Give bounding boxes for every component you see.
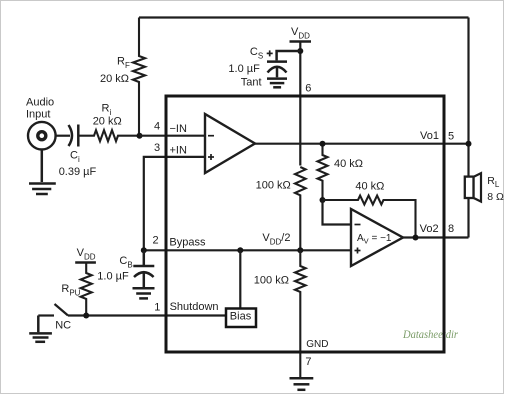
svg-text:+IN: +IN [170,145,187,157]
resistor 100k upper [295,167,306,250]
svg-text:Vo2: Vo2 [420,223,439,235]
svg-text:Datasheetdir: Datasheetdir [402,327,458,341]
svg-text:AV = −1: AV = −1 [357,233,392,246]
IC box [166,96,444,352]
node bias tap [237,247,243,253]
wire +IN pin 3 [144,157,205,250]
svg-text:Bias: Bias [230,310,252,322]
node shutdown/pull-up junction [83,313,89,319]
capacitor CB [133,250,154,287]
U1A inverting input mark [208,135,214,137]
wire Vo2 [403,236,469,238]
svg-text:−IN: −IN [170,123,187,135]
ground (NC) [29,316,52,342]
svg-text:1.0 µF: 1.0 µF [97,270,129,282]
svg-text:Shutdown: Shutdown [170,301,219,313]
svg-text:Input: Input [26,108,50,120]
speaker RL [465,173,481,201]
ground (audio input) [29,149,56,194]
svg-text:100 kΩ: 100 kΩ [254,275,289,287]
svg-text:5: 5 [448,131,454,143]
svg-text:20 kΩ: 20 kΩ [100,73,129,85]
svg-text:1: 1 [154,301,160,313]
svg-text:7: 7 [305,356,311,368]
svg-text:8: 8 [448,223,454,235]
resistor 40k feedback horizontal [323,196,416,238]
svg-text:0.39 µF: 0.39 µF [59,166,97,178]
node VDD/CS tap [297,48,303,54]
node bypass/CB junction [141,247,147,253]
wire bypass VDD/2 rail [144,249,351,251]
wire U1B inverting input [323,200,352,225]
svg-text:Vo1: Vo1 [420,130,439,142]
label CS plus polarity [267,50,273,56]
capacitor Ci [69,125,79,147]
svg-text:Audio: Audio [26,97,54,109]
svg-text:NC: NC [55,319,71,331]
resistor 100k lower [295,250,306,377]
svg-text:8 Ω: 8 Ω [487,191,504,203]
node input junction Ri/RF/-IN [137,133,143,139]
resistor Ri [78,130,139,141]
svg-text:Bypass: Bypass [169,237,206,249]
wire output column (speaker branch) [467,18,469,238]
svg-text:100 kΩ: 100 kΩ [256,180,291,192]
svg-text:40 kΩ: 40 kΩ [355,181,384,193]
U1B inverting input mark [355,224,361,226]
resistor 40k vertical [318,144,328,200]
node 40k junction [320,197,326,203]
wire shutdown pin 1 [68,314,226,316]
U1B non-inverting input mark [355,248,361,254]
wire VDD rail to 100k [299,42,301,166]
wire Vo1 [255,143,469,145]
svg-text:20 kΩ: 20 kΩ [93,116,122,128]
block Bias [226,309,256,328]
svg-text:3: 3 [154,142,160,154]
capacitor CS [267,51,300,77]
wire jack to Ci [55,135,70,137]
wire top feedback rail [139,16,469,18]
svg-text:2: 2 [153,235,159,247]
op-amp U1B [351,209,403,266]
U1A non-inverting input mark [208,154,214,160]
svg-text:4: 4 [154,121,160,133]
wire -IN pin 4 [140,135,206,137]
svg-text:6: 6 [305,82,311,94]
svg-text:40 kΩ: 40 kΩ [334,158,363,170]
power VDD top bar [290,40,312,43]
power VDD pull-up bar [75,261,96,264]
resistor RF [133,18,145,136]
connector J1 audio input jack [28,122,56,150]
ground (CS) [267,79,287,88]
ground (CB) [133,288,155,298]
wire bias tap vertical [239,250,241,308]
node Vo1/40k junction [320,141,326,147]
node VDD/2 divider junction [297,247,303,253]
svg-text:GND: GND [306,339,328,350]
svg-text:Tant: Tant [241,77,262,89]
switch S1 shutdown [38,304,68,316]
ground (pin 7) [290,378,314,390]
op-amp U1A [205,114,255,173]
svg-text:1.0 µF: 1.0 µF [228,63,260,75]
resistor RPU [81,263,92,316]
node Vo1 output junction [466,141,472,147]
node Vo2 junction [413,235,419,241]
